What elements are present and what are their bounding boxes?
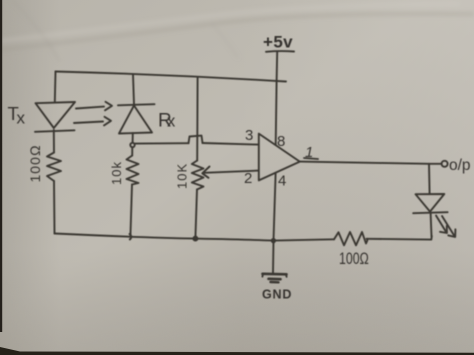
wire: op-amp pin 4 to bottom rail bbox=[274, 174, 276, 241]
paper creases bbox=[0, 0, 474, 62]
svg-text:x: x bbox=[167, 113, 176, 131]
svg-text:100Ω: 100Ω bbox=[27, 144, 43, 182]
arrow: LED light ray 2 bbox=[442, 216, 455, 237]
svg-text:10k: 10k bbox=[109, 161, 124, 185]
photodiode Rx bbox=[118, 104, 155, 105]
LED Tx bbox=[36, 102, 76, 128]
wire: op-amp output pin 1 to o/p terminal bbox=[300, 162, 441, 164]
svg-text:3: 3 bbox=[245, 127, 253, 144]
svg-text:100Ω: 100Ω bbox=[339, 250, 369, 268]
wire: rail drop to Rx cathode bbox=[133, 75, 134, 105]
arrow: LED light ray 1 bbox=[436, 216, 447, 234]
wire: +5V top rail bbox=[56, 72, 287, 82]
ground symbol bbox=[263, 272, 287, 275]
LED output indicator bbox=[416, 194, 445, 212]
photo dark edges bbox=[0, 0, 2, 332]
wire: R 100ohm to bottom rail bbox=[53, 181, 56, 234]
svg-text:8: 8 bbox=[277, 133, 285, 150]
wire: rail junction to ground bbox=[272, 241, 275, 273]
svg-text:GND: GND bbox=[262, 288, 292, 302]
+5V supply bar bbox=[266, 50, 294, 53]
resistor 100ohm (LED series) bbox=[334, 232, 367, 245]
op-amp U1 comparator bbox=[259, 134, 300, 181]
wire: hop to op-amp pin 3 bbox=[203, 143, 259, 145]
wire: pot to bottom rail bbox=[195, 190, 197, 239]
svg-text:10K: 10K bbox=[175, 163, 190, 189]
wire: rail drop to Tx anode bbox=[54, 72, 57, 103]
junction dot: pot/bottom rail bbox=[193, 237, 197, 241]
wire: node to hop bbox=[135, 142, 189, 144]
wiper arrow of pot bbox=[202, 167, 209, 178]
wire: Rx anode to node bbox=[132, 133, 134, 143]
svg-text:2: 2 bbox=[244, 170, 252, 187]
svg-text:+5v: +5v bbox=[263, 33, 293, 52]
svg-text:o/p: o/p bbox=[449, 157, 471, 174]
wire: wiper to op-amp pin 2 bbox=[204, 171, 259, 173]
wire: R 10k to bottom rail bbox=[130, 185, 132, 237]
arrow: IR beam lower bbox=[74, 117, 111, 126]
wire: +5V bar to rail bbox=[276, 52, 279, 81]
wire: Tx cathode to R 100ohm bbox=[53, 130, 55, 153]
resistor 100ohm (Tx) bbox=[47, 153, 61, 182]
wire: node to R 10k bbox=[131, 147, 133, 155]
junction dot: ground/bottom rail bbox=[272, 239, 275, 242]
terminal: o/p circle bbox=[442, 161, 448, 167]
wire: o/p junction to LED anode bbox=[428, 164, 431, 194]
wire: resistor to LED cathode bbox=[367, 236, 432, 240]
wire: rail to op-amp pin 8 bbox=[275, 81, 278, 145]
junction tick: Rx resistor at rail bbox=[130, 234, 132, 240]
node: Rx / divider junction bbox=[130, 143, 134, 147]
svg-text:x: x bbox=[17, 109, 26, 128]
potentiometer 10k bbox=[192, 161, 204, 190]
wire: bottom rail bbox=[55, 234, 335, 241]
wire: hop over pot line bbox=[189, 136, 203, 144]
svg-text:4: 4 bbox=[278, 173, 286, 190]
wire: LED to bottom rail bbox=[430, 213, 433, 237]
wire: rail drop to pot 10k bbox=[196, 78, 198, 161]
resistor 10k (Rx load) bbox=[127, 156, 139, 185]
arrow: IR beam upper bbox=[76, 102, 112, 111]
